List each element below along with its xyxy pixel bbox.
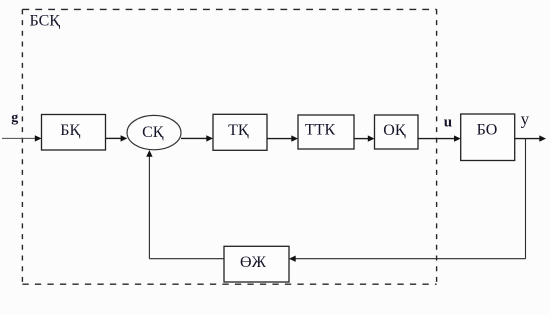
wire: feedback up into СҚ [148,156,150,259]
arrowhead into БО [454,135,461,141]
svg-text:БО: БО [477,122,498,139]
svg-text:ТТК: ТТК [305,122,336,139]
arrowhead into СҚ [121,135,128,141]
block БО [461,114,515,161]
svg-text:y: y [521,109,530,128]
wire: feedback tap down from output [525,139,527,259]
wire: БҚ to СҚ [106,137,122,139]
arrowhead into БҚ [35,135,42,141]
dashed boundary box БСҚ : right edge [436,9,438,284]
summing junction СҚ (ellipse) [127,115,181,149]
dashed boundary box БСҚ : left edge [21,9,23,284]
wire: ТҚ to ТТК [267,138,293,140]
arrowhead into ОҚ [368,135,375,141]
block ӨЖ (feedback) [224,246,289,282]
svg-text:ОҚ: ОҚ [383,122,406,139]
dashed boundary box БСҚ : top edge [22,8,436,10]
block БҚ [42,115,106,151]
svg-text:ӨЖ: ӨЖ [240,254,267,271]
wire: ӨЖ output to the left [149,258,224,260]
svg-text:БСҚ: БСҚ [30,13,61,30]
block ТТК [298,115,354,149]
block ТҚ [213,114,267,150]
arrowhead into ТҚ [206,135,213,141]
svg-text:СҚ: СҚ [142,124,164,141]
block ОҚ [375,115,419,149]
svg-text:БҚ: БҚ [60,122,80,139]
svg-text:u: u [444,114,452,130]
svg-text:g: g [11,111,18,126]
wire: input into БҚ [2,137,36,139]
arrowhead into ТТК [291,135,298,141]
wire: СҚ to ТҚ [181,137,208,139]
arrowhead output y [539,135,546,141]
wire: ТТК to ОҚ [354,138,369,140]
arrowhead up into СҚ [146,150,152,157]
wire: feedback horizontal into ӨЖ [296,258,526,260]
wire: ОҚ to БО (crosses dashed boundary) [418,138,455,140]
svg-text:ТҚ: ТҚ [228,122,249,139]
wire: БО output [515,138,540,140]
arrowhead into ӨЖ [289,256,296,262]
dashed boundary box БСҚ : bottom edge [22,283,436,285]
